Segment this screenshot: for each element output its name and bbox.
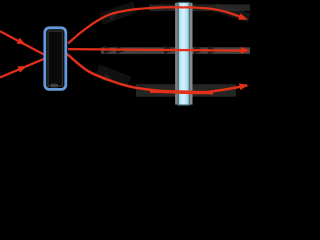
arrowhead on ray L2 bbox=[17, 66, 27, 73]
blue box (device outline) bbox=[45, 28, 66, 90]
dark arrowhead on bottom ray (after slab) bbox=[208, 87, 219, 96]
dark arrowhead on top ray (mid rise) bbox=[107, 13, 118, 22]
small gray detail at box bottom interior bbox=[51, 84, 59, 88]
dark arrowhead on middle ray 2 bbox=[116, 46, 126, 55]
noise band along top ray near slab bbox=[149, 4, 250, 11]
ray L2 (converging from left, lower) bbox=[0, 58, 46, 77]
dark arrowhead on middle ray (before slab) bbox=[164, 46, 174, 55]
bottom ray (curved) bbox=[67, 54, 247, 93]
noise patch near top ray rise bbox=[99, 1, 137, 25]
left capacitor plate of cell bbox=[175, 3, 178, 105]
arrowhead on ray L1 bbox=[17, 38, 27, 45]
arrowhead bottom ray right end bbox=[239, 83, 249, 90]
bottom ray thick segment at slab bbox=[150, 91, 213, 93]
dark arrowhead on top ray (after slab) bbox=[195, 3, 205, 12]
noise patch near bottom ray fall bbox=[95, 64, 131, 87]
noise band along middle ray bbox=[101, 47, 250, 54]
arrowhead top ray right end bbox=[238, 13, 248, 20]
inner dark frame of box bbox=[48, 31, 63, 86]
ray L1 (converging from left, upper) bbox=[0, 31, 46, 55]
dark arrowhead on middle ray 3 bbox=[208, 46, 218, 55]
middle ray (horizontal) bbox=[68, 49, 246, 51]
dark arrowhead on middle ray (after slab) bbox=[194, 46, 204, 55]
dark arrowhead on top ray (before slab) bbox=[162, 3, 172, 12]
noise band along bottom ray near slab bbox=[136, 84, 236, 97]
glass slab (cell) bbox=[178, 2, 189, 105]
arrowhead middle ray right end bbox=[241, 47, 250, 54]
right capacitor plate of cell bbox=[189, 3, 192, 105]
noise band along top ray descent bbox=[214, 3, 250, 22]
dark arrowhead on bottom ray (mid fall) bbox=[102, 73, 113, 81]
dark arrowhead on bottom ray (before slab) bbox=[137, 83, 148, 91]
top ray (curved) bbox=[68, 7, 243, 43]
dark arrowhead on middle ray 1 bbox=[104, 46, 114, 55]
